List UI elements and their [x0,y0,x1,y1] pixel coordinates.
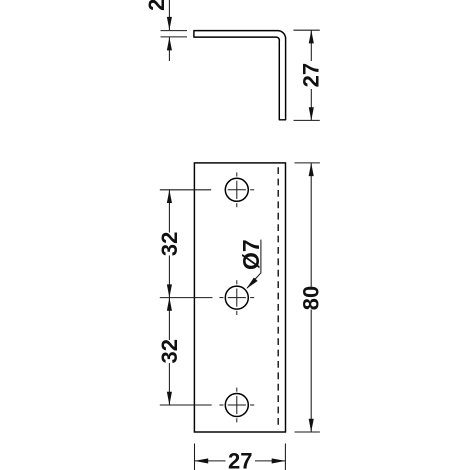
dimension 32 upper line [168,190,170,233]
dimension 27 bottom extension line left [194,444,196,470]
angle bracket side view (L profile) [194,31,286,120]
dimension 80 extension line top [295,162,320,164]
dimension 2 line upper [168,0,170,30]
dimension 27 bottom extension line right [284,444,286,470]
dimension 80 line [310,163,312,287]
hole H3 [225,394,248,417]
plate front view outline [194,163,285,432]
dimension 27 top arrow down [309,107,314,120]
leader Ø7 arrowhead [246,278,257,289]
dimension 32 upper arrow up [167,190,172,203]
dimension 80 arrow up [309,163,314,176]
dimension 27 top extension line upper [294,29,320,31]
extension line hole H2 [160,297,213,299]
dimension 27 top extension line lower [294,119,320,121]
hole H2 [225,286,248,309]
hole H3 centerlines [219,388,254,423]
dimension 80 arrow down [309,419,314,432]
svg-text:27: 27 [228,449,252,470]
svg-text:27: 27 [299,63,324,87]
dimension 27 top line [310,30,312,61]
dimension 2 arrow up [167,37,172,50]
dimension 2 arrow down [167,17,172,30]
svg-text:Ø7: Ø7 [238,239,264,270]
hole H1 centerlines [228,172,255,207]
dimension 80 extension line bottom [295,431,320,433]
hole H1 [225,178,248,201]
svg-text:32: 32 [157,232,182,256]
dimension 2 extension line top [161,30,188,32]
dimension 32 lower arrow up [167,298,172,311]
dimension 27 bottom arrow left [195,458,209,463]
dimension 32 lower arrow down [167,392,172,405]
dimension 2 line lower [168,37,170,61]
extension line hole H3 [160,404,212,406]
dimension 2 extension line bottom [161,36,188,38]
leader Ø7 line [247,240,261,289]
dimension 32 lower line [168,298,170,340]
dimension 27 top arrow up [309,30,314,43]
dimension 27 bottom line [195,460,226,462]
hole H2 centerlines [219,280,254,315]
dimension 27 bottom arrow right [272,458,286,463]
bend dashed line [277,167,279,429]
svg-text:80: 80 [299,286,324,310]
svg-text:2: 2 [144,0,169,11]
extension line hole H1 [160,189,211,191]
dimension 32 upper arrow down [167,284,172,297]
svg-text:32: 32 [157,339,182,363]
